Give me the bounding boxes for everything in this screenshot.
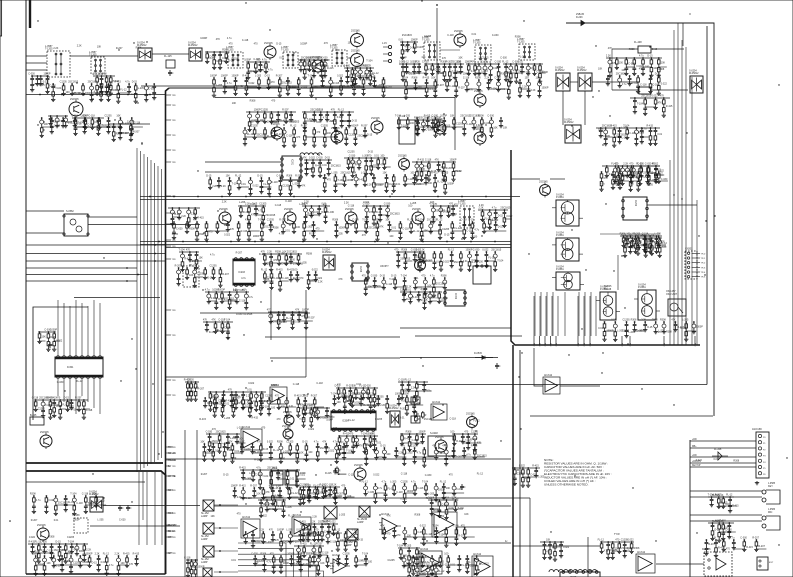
component string N349	[513, 467, 525, 486]
svg-text:C-118: C-118	[32, 397, 39, 400]
svg-text:R308: R308	[501, 72, 507, 75]
component string N277	[37, 331, 46, 344]
wire	[26, 573, 166, 575]
svg-text:PIN: PIN	[621, 343, 623, 347]
wire	[682, 23, 684, 46]
svg-text:L-205: L-205	[331, 172, 338, 175]
svg-text:1000P: 1000P	[232, 75, 239, 78]
wire net	[294, 545, 324, 547]
svg-text:R-415: R-415	[666, 105, 673, 108]
svg-text:R308: R308	[332, 219, 338, 222]
wire	[152, 53, 189, 55]
component string N714	[32, 553, 45, 576]
component string N575	[466, 249, 479, 272]
wire net	[246, 61, 270, 63]
svg-text:P6: P6	[763, 474, 766, 476]
svg-text:R-415: R-415	[241, 230, 248, 233]
component string N691	[306, 553, 319, 568]
svg-text:2SC1815: 2SC1815	[88, 81, 99, 84]
wire	[105, 94, 107, 96]
svg-text:10K: 10K	[116, 115, 121, 118]
label	[168, 476, 176, 478]
svg-text:FL-12: FL-12	[429, 88, 436, 91]
component string N103	[39, 75, 50, 86]
wire net	[622, 235, 660, 237]
connector CN402	[757, 557, 774, 570]
component string N257	[193, 207, 204, 220]
wire net	[452, 433, 478, 435]
wire	[140, 241, 511, 243]
svg-text:R-415: R-415	[242, 75, 249, 78]
svg-text:R-207: R-207	[295, 175, 302, 178]
component string N355	[41, 541, 54, 554]
wire	[690, 439, 756, 441]
component string N641	[239, 485, 252, 500]
svg-text:2SC945: 2SC945	[219, 208, 228, 211]
svg-text:FL-12: FL-12	[348, 419, 355, 422]
svg-text:C1205: C1205	[424, 35, 432, 38]
svg-text:C-030: C-030	[343, 65, 350, 68]
op-amp IC313	[419, 548, 442, 574]
svg-text:T-104: T-104	[263, 278, 270, 281]
svg-text:IC203: IC203	[239, 271, 246, 274]
component string N737	[655, 73, 668, 96]
component string N246	[429, 203, 446, 224]
svg-text:L-205: L-205	[301, 262, 308, 265]
wire net	[179, 251, 199, 253]
component string N523	[226, 221, 235, 232]
svg-text:L-205: L-205	[659, 330, 666, 333]
svg-text:10K: 10K	[431, 77, 436, 80]
wire net	[208, 391, 266, 393]
svg-text:0.01: 0.01	[279, 57, 284, 60]
svg-text:L-205: L-205	[216, 84, 223, 87]
svg-text:2.2K: 2.2K	[531, 89, 536, 92]
component string N555	[269, 271, 280, 290]
component string N474	[460, 115, 473, 136]
svg-text:UKOPY: UKOPY	[380, 265, 389, 268]
svg-text:0.022: 0.022	[308, 428, 315, 431]
component string N295	[203, 319, 215, 334]
svg-text:C1205: C1205	[622, 329, 630, 332]
op-amp IC304	[431, 401, 447, 420]
svg-text:2.2K: 2.2K	[407, 286, 412, 289]
svg-text:100: 100	[296, 226, 301, 229]
component string N291	[218, 289, 235, 304]
wire	[689, 440, 691, 577]
svg-text:C-030: C-030	[276, 175, 283, 178]
svg-text:C1205: C1205	[603, 135, 611, 138]
component string N460	[301, 125, 315, 146]
svg-text:FL-12: FL-12	[290, 125, 297, 128]
svg-text:4.7u: 4.7u	[227, 37, 232, 40]
svg-text:T-104: T-104	[397, 545, 404, 548]
svg-text:R308: R308	[307, 404, 313, 407]
component string N192	[419, 117, 432, 132]
component string N339	[343, 433, 350, 448]
svg-text:2.2K: 2.2K	[420, 249, 425, 252]
component string N351	[526, 467, 537, 487]
labels	[57, 380, 83, 384]
component string N609	[395, 393, 408, 406]
svg-text:D-15: D-15	[132, 81, 138, 84]
svg-text:47K: 47K	[265, 491, 270, 494]
svg-text:IC301: IC301	[67, 366, 74, 369]
wire net	[29, 555, 31, 557]
svg-text:R-207: R-207	[276, 75, 283, 78]
label	[168, 530, 175, 533]
svg-text:FL-12: FL-12	[405, 379, 412, 382]
svg-text:2.2K: 2.2K	[367, 183, 372, 186]
svg-text:0.01: 0.01	[414, 277, 419, 280]
svg-text:L-205: L-205	[616, 169, 623, 172]
component string N638	[462, 447, 474, 458]
wire	[550, 178, 565, 180]
component string N595	[257, 395, 270, 416]
component string N244	[378, 205, 387, 222]
wire	[690, 446, 756, 448]
svg-text:0-030 31-0545: 0-030 31-0545	[236, 313, 253, 316]
wire	[617, 255, 619, 290]
component string N258	[394, 249, 411, 268]
component string N556	[276, 269, 289, 292]
svg-text:M-05812: M-05812	[322, 251, 332, 254]
component string N494	[267, 177, 278, 196]
svg-text:TYW: TYW	[614, 533, 620, 536]
node test point	[166, 162, 177, 164]
wire	[270, 290, 272, 340]
component string N280	[32, 397, 46, 412]
svg-text:2.2K: 2.2K	[646, 240, 651, 243]
component string N486	[116, 115, 129, 130]
svg-text:D-15: D-15	[647, 326, 653, 329]
wire	[454, 98, 456, 151]
note text	[544, 458, 612, 487]
component string N666	[269, 529, 280, 543]
component string N178	[254, 109, 265, 124]
svg-text:2SC1815: 2SC1815	[500, 207, 511, 210]
svg-text:R308: R308	[277, 441, 283, 444]
labels	[211, 513, 469, 519]
wire	[214, 527, 238, 529]
svg-text:RGB: RGB	[168, 513, 173, 515]
component string N395	[598, 539, 609, 554]
svg-text:2SC945: 2SC945	[412, 208, 421, 211]
component string N757	[432, 563, 445, 577]
component string N125	[353, 67, 368, 86]
component string N416	[99, 83, 110, 102]
svg-text:47K: 47K	[359, 444, 364, 447]
svg-text:T-104: T-104	[497, 259, 504, 262]
svg-text:470: 470	[237, 513, 242, 516]
svg-text:C1205: C1205	[441, 172, 449, 175]
svg-text:470: 470	[186, 249, 191, 252]
component string N149	[502, 61, 513, 82]
component string N297	[218, 319, 231, 334]
svg-text:PIN: PIN	[577, 343, 579, 347]
svg-text:C-118: C-118	[231, 58, 238, 61]
node test point	[166, 553, 177, 555]
resistor R104	[336, 466, 341, 474]
svg-text:J-15: J-15	[382, 42, 387, 45]
node test point	[166, 213, 177, 215]
IC IC302	[444, 290, 467, 306]
svg-text:0.022: 0.022	[341, 393, 348, 396]
component string N388	[715, 494, 728, 509]
wire	[540, 292, 542, 336]
svg-text:47K: 47K	[671, 319, 676, 322]
wire net	[606, 57, 662, 59]
svg-text:T-104: T-104	[179, 249, 186, 252]
svg-text:0.01: 0.01	[611, 319, 616, 322]
component string N341	[354, 435, 363, 448]
component string N722	[103, 553, 114, 576]
component string N397	[611, 541, 620, 560]
svg-text:D-15: D-15	[302, 441, 308, 444]
svg-text:2.2K: 2.2K	[479, 207, 484, 210]
node test point	[166, 537, 177, 539]
component string N189	[338, 109, 351, 128]
component string N755	[415, 565, 426, 577]
component string N764	[310, 543, 322, 564]
node test point	[166, 490, 177, 492]
svg-text:47K: 47K	[379, 226, 384, 229]
component string N648	[305, 485, 318, 500]
svg-text:2SB-05: 2SB-05	[576, 13, 585, 16]
svg-text:47K: 47K	[203, 319, 208, 322]
svg-text:T-1205: T-1205	[517, 41, 525, 44]
svg-text:D-15: D-15	[250, 203, 256, 206]
component string N738	[184, 557, 195, 577]
svg-text:4.7u: 4.7u	[333, 441, 338, 444]
svg-text:R-415: R-415	[123, 553, 130, 556]
wire net	[49, 83, 51, 85]
svg-text:470: 470	[273, 259, 278, 262]
svg-text:FL-12: FL-12	[313, 485, 320, 488]
svg-text:L-205: L-205	[305, 485, 312, 488]
wire	[673, 30, 675, 345]
svg-text:470: 470	[316, 131, 321, 134]
svg-text:C-118: C-118	[386, 283, 393, 286]
label	[168, 490, 173, 492]
svg-text:10K: 10K	[458, 57, 463, 60]
component string N631	[394, 447, 406, 458]
svg-text:FL-12: FL-12	[68, 501, 75, 504]
svg-text:100: 100	[250, 121, 255, 124]
component string N104	[44, 73, 57, 94]
svg-text:0.022: 0.022	[482, 249, 489, 252]
svg-text:100: 100	[619, 61, 624, 64]
svg-text:2SC945: 2SC945	[345, 208, 354, 211]
component string N459	[290, 125, 301, 148]
wire	[61, 94, 63, 96]
jack J402	[762, 509, 780, 530]
svg-text:100: 100	[418, 86, 423, 89]
component string N216	[418, 159, 431, 182]
transistor Q307	[354, 464, 366, 482]
component string N154	[532, 63, 544, 76]
wire net	[240, 469, 300, 471]
labels	[408, 203, 484, 207]
wire	[26, 244, 165, 246]
svg-text:R308: R308	[733, 460, 739, 463]
svg-text:R-415: R-415	[197, 217, 204, 220]
component string N744	[267, 467, 278, 490]
component string N274	[642, 233, 653, 254]
component string N475	[470, 115, 483, 130]
diode D301	[474, 352, 493, 359]
svg-text:1000P: 1000P	[440, 115, 447, 118]
svg-text:R-415: R-415	[424, 115, 431, 118]
svg-text:T-104: T-104	[308, 75, 315, 78]
svg-text:4.7u: 4.7u	[109, 564, 114, 567]
component string N372	[400, 433, 411, 446]
component string N563	[380, 275, 393, 290]
svg-text:R308: R308	[49, 535, 55, 538]
wire	[584, 91, 586, 125]
component string N228	[621, 235, 634, 258]
component string N725	[133, 553, 140, 566]
svg-text:R-415: R-415	[325, 472, 332, 475]
svg-text:2SC945: 2SC945	[40, 431, 49, 434]
svg-text:C-118: C-118	[316, 382, 323, 385]
box	[30, 414, 44, 425]
wire	[165, 376, 306, 378]
svg-text:C-030: C-030	[119, 519, 126, 522]
svg-text:C1205: C1205	[623, 319, 631, 322]
component string N753	[330, 521, 343, 536]
component string N594	[246, 395, 252, 418]
component string N729	[730, 537, 744, 550]
connector CN201	[685, 248, 706, 280]
component string N414	[81, 83, 92, 96]
svg-text:0.01: 0.01	[225, 403, 230, 406]
svg-text:L-0587: L-0587	[458, 200, 466, 203]
svg-text:2.2K: 2.2K	[332, 484, 337, 487]
labels	[210, 252, 313, 257]
svg-text:C-118: C-118	[317, 109, 324, 112]
svg-text:C-118: C-118	[271, 181, 278, 184]
svg-text:470: 470	[341, 485, 346, 488]
label	[168, 524, 177, 527]
svg-text:470: 470	[271, 81, 276, 84]
component string N610	[403, 393, 416, 416]
component string N318	[228, 389, 241, 408]
svg-text:4.7u: 4.7u	[377, 487, 382, 490]
IC IC203	[233, 258, 255, 287]
component string N165	[652, 95, 663, 110]
svg-text:L-205: L-205	[239, 201, 246, 204]
component string N562	[371, 275, 385, 289]
component string N309	[428, 291, 438, 304]
component string N655	[382, 481, 395, 502]
svg-text:0.01: 0.01	[391, 227, 396, 230]
component string N578	[491, 249, 504, 272]
component string N250	[479, 207, 492, 222]
svg-text:4.7u: 4.7u	[272, 121, 277, 124]
svg-text:C-118: C-118	[460, 219, 467, 222]
svg-text:C-030: C-030	[422, 61, 429, 64]
wire	[677, 23, 679, 345]
component string N642	[250, 485, 261, 498]
component string N580	[611, 319, 624, 342]
box	[411, 416, 420, 423]
component string N323	[260, 391, 271, 410]
component string N326	[316, 407, 327, 420]
component string N550	[191, 265, 205, 288]
component string N754	[407, 565, 418, 577]
wire	[600, 233, 660, 235]
labels	[696, 458, 740, 462]
component string N166	[660, 95, 673, 118]
component string N306	[406, 289, 419, 304]
component string N707	[30, 493, 41, 514]
component string N268	[179, 249, 192, 272]
transistor Q101	[264, 42, 276, 60]
svg-text:0.022: 0.022	[29, 536, 36, 539]
wire	[26, 481, 145, 483]
svg-text:T-104: T-104	[400, 498, 407, 501]
label	[168, 513, 173, 515]
svg-text:UNLESS OTHERWISE NOTED.: UNLESS OTHERWISE NOTED.	[544, 483, 589, 487]
component string N223	[620, 165, 631, 186]
svg-text:C: C	[499, 365, 501, 368]
svg-text:47K: 47K	[322, 441, 327, 444]
component string N342	[361, 433, 374, 454]
svg-text:0.022: 0.022	[248, 382, 255, 385]
svg-text:470: 470	[614, 163, 619, 166]
component string N185	[310, 109, 321, 124]
component string N557	[287, 269, 300, 282]
svg-text:P0: P0	[763, 437, 766, 439]
wire	[26, 94, 165, 96]
component string N279	[50, 329, 63, 352]
svg-text:R-207: R-207	[281, 321, 288, 324]
svg-text:47K: 47K	[228, 389, 233, 392]
component string N419	[125, 81, 138, 96]
svg-text:2.2K: 2.2K	[522, 86, 527, 89]
wire	[389, 196, 400, 243]
svg-text:0.022: 0.022	[238, 85, 245, 88]
transistor Q111	[434, 118, 446, 136]
component string N261	[416, 249, 427, 272]
component string N448	[485, 77, 499, 91]
svg-text:PIN: PIN	[533, 343, 535, 347]
svg-text:P5: P5	[763, 468, 766, 470]
svg-text:R-415: R-415	[114, 81, 121, 84]
svg-text:R-415: R-415	[746, 546, 753, 549]
wire	[26, 55, 47, 57]
component string N142	[457, 61, 470, 76]
svg-text:FL/BML 2K: FL/BML 2K	[712, 495, 724, 497]
component string N694	[336, 555, 340, 566]
component string N644	[269, 485, 282, 506]
svg-text:0.022: 0.022	[361, 514, 368, 517]
svg-text:470: 470	[271, 100, 276, 103]
component string N659	[422, 481, 435, 496]
component string N252	[492, 207, 504, 220]
component string N313	[415, 381, 425, 401]
svg-text:IC202: IC202	[634, 200, 636, 207]
component string N118	[301, 57, 312, 80]
component string N134	[410, 61, 421, 75]
svg-text:1000P: 1000P	[200, 37, 207, 40]
component string N381	[405, 545, 419, 566]
component string N214	[380, 155, 390, 170]
component string N495	[276, 175, 290, 196]
svg-text:R308: R308	[629, 48, 635, 51]
wire	[90, 525, 180, 527]
